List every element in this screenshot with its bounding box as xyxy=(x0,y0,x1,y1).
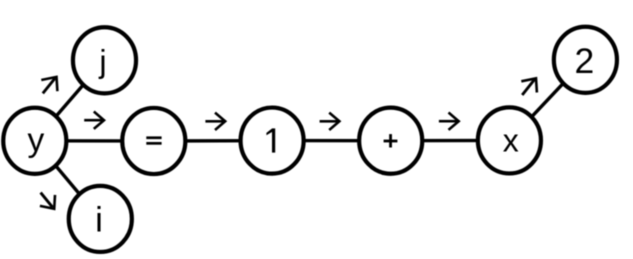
wire 1-+ xyxy=(272,139,391,142)
label + xyxy=(384,140,398,143)
arrow right on edge +-x xyxy=(439,113,459,130)
svg-text:y: y xyxy=(28,122,45,159)
svg-text:2: 2 xyxy=(575,41,595,81)
wire +-x xyxy=(391,139,510,143)
wire y-j xyxy=(35,60,105,141)
wire y-= xyxy=(35,139,154,143)
arrow up-right on edge x-2 xyxy=(521,78,537,95)
node y circle xyxy=(3,108,66,174)
node 1 circle xyxy=(241,108,304,174)
arrow right on edge =-1 xyxy=(205,113,225,130)
svg-text:x: x xyxy=(503,123,519,159)
node i circle xyxy=(69,186,132,252)
node = circle xyxy=(122,108,185,174)
wire =-1 xyxy=(154,139,272,143)
node x circle xyxy=(478,107,541,173)
arrow up-right on edge y-j xyxy=(41,77,57,94)
label 1 xyxy=(272,128,275,152)
node j circle xyxy=(73,27,136,93)
svg-text:j: j xyxy=(98,43,106,79)
node 2 circle xyxy=(554,27,617,93)
svg-text:i: i xyxy=(95,200,103,239)
arrow right on edge 1-+ xyxy=(320,113,340,130)
wire x-2 xyxy=(509,60,585,141)
arrow right on edge y-= xyxy=(84,112,104,129)
arrow down-right on edge y-i xyxy=(40,193,55,209)
wire y-i xyxy=(35,141,101,219)
label = xyxy=(146,136,161,139)
node + circle xyxy=(359,108,422,174)
